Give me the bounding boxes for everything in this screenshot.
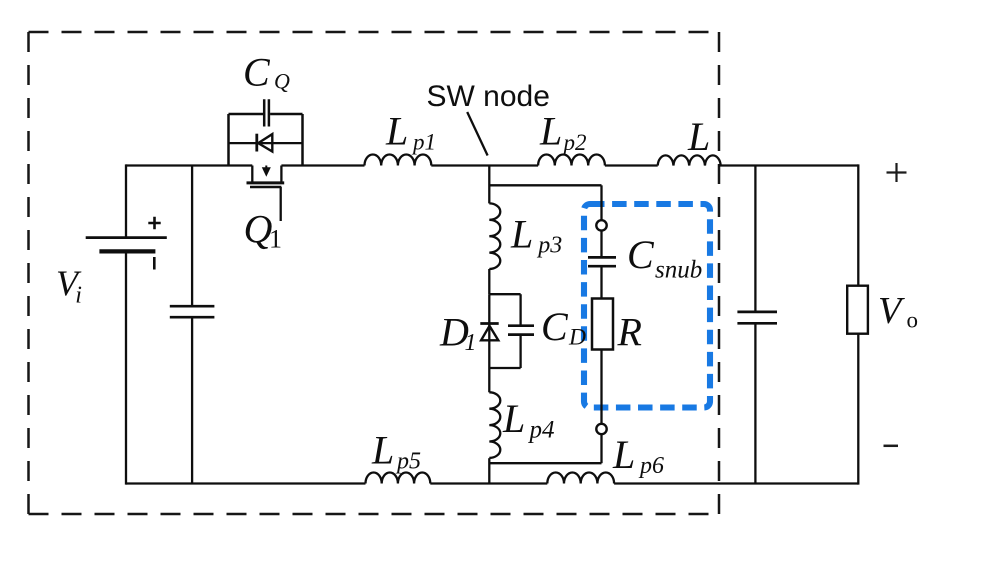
wire snubber branch top lead [600, 185, 602, 220]
wire D1 through branch [488, 294, 490, 368]
diode D1 triangle [481, 326, 498, 340]
wire output-cap branch top [754, 166, 756, 312]
label Vi [56, 263, 82, 309]
output plus sign [887, 163, 907, 182]
svg-text:L: L [612, 432, 635, 477]
svg-text:SW node: SW node [427, 80, 550, 113]
svg-text:L: L [510, 211, 533, 256]
wire CD lower lead [519, 335, 521, 368]
capacitor CD plates [508, 326, 534, 335]
battery minus tick [153, 257, 156, 270]
inductor Lp3 [489, 203, 500, 269]
wire bottom rail middle [430, 482, 547, 484]
resistor R [592, 299, 613, 350]
label SW node [427, 80, 550, 113]
transistor Q1 channel bar [247, 181, 285, 184]
node terminal circle bottom [596, 424, 606, 434]
wire output-cap branch bottom [754, 323, 756, 483]
svg-text:p2: p2 [562, 130, 587, 155]
wire Csnub to R [600, 266, 602, 298]
capacitor Cout top plate [737, 311, 777, 314]
svg-text:p6: p6 [638, 453, 664, 479]
load resistor Vo box [847, 286, 868, 334]
svg-text:V: V [878, 290, 905, 332]
wire Lp2 to L [605, 164, 658, 166]
wire top rail left segment [126, 164, 252, 166]
battery Vi minus plate [99, 249, 155, 253]
label Lp4 [502, 396, 555, 444]
wire input-cap branch bottom [191, 317, 193, 483]
capacitor Cin bottom plate [170, 316, 215, 319]
wire circle to Csnub [600, 231, 602, 258]
wire snubber bottom connector [489, 462, 601, 464]
capacitor Csnub plates [588, 257, 616, 266]
svg-text:p5: p5 [395, 449, 421, 475]
svg-text:L: L [371, 427, 394, 472]
wire bottom rail left [126, 482, 366, 484]
svg-text:Q: Q [274, 69, 290, 94]
transistor Q1 source stub [280, 166, 282, 183]
svg-text:1: 1 [465, 330, 477, 356]
wire snubber top connector [489, 184, 601, 186]
wire Lp4 to bottom rail [488, 458, 490, 483]
inductor Lp5 [366, 472, 431, 483]
capacitor CQ box left side [227, 114, 230, 166]
inductor Lp4 [489, 392, 500, 458]
capacitor CQ plates [264, 99, 269, 126]
converter boundary dashed box [29, 32, 720, 514]
svg-text:L: L [539, 109, 562, 154]
transistor Q1 drain stub [251, 166, 253, 183]
SW node pointer line [467, 112, 487, 156]
battery Vi plus plate [86, 236, 167, 239]
wire input-cap branch top [191, 166, 193, 307]
wire SW branch top [488, 166, 490, 204]
label Csnub [627, 232, 702, 284]
diode D1 cathode bar [480, 322, 498, 325]
wire L to output corner [719, 164, 859, 166]
svg-text:p3: p3 [536, 233, 562, 259]
label L [687, 114, 710, 159]
wire R to bottom circle [600, 350, 602, 424]
svg-text:snub: snub [655, 257, 702, 284]
capacitor Cout bottom plate [737, 322, 777, 325]
label D1 [439, 309, 477, 356]
D1/CD box top wire [489, 293, 520, 295]
label CD [541, 304, 586, 351]
svg-text:p1: p1 [411, 130, 436, 155]
wire bottom circle lead [600, 434, 602, 463]
svg-text:C: C [627, 232, 655, 277]
inductor Lp1 [365, 154, 432, 165]
label Lp2 [539, 109, 587, 155]
inductor L [658, 155, 721, 165]
label Vo [878, 290, 918, 333]
body diode cathode bar [255, 134, 258, 152]
wire load branch bottom [857, 334, 859, 485]
wire CD upper lead [519, 294, 521, 326]
wire battery bottom lead [125, 253, 127, 485]
label Lp5 [371, 427, 421, 474]
body diode triangle [258, 134, 272, 151]
wire battery top lead [125, 164, 127, 237]
svg-text:C: C [541, 304, 569, 349]
label CQ [243, 49, 290, 94]
node terminal circle top [596, 220, 606, 230]
inductor Lp6 [547, 472, 614, 483]
capacitor Cin top plate [170, 305, 215, 308]
transistor Q1 gate lead [280, 187, 282, 221]
transistor Q1 gate bar [250, 186, 281, 189]
svg-text:i: i [75, 283, 82, 309]
battery plus sign [148, 217, 160, 229]
label R [617, 309, 642, 354]
label Q1 [244, 207, 283, 254]
snubber highlight box (blue dashed) [584, 204, 710, 408]
label Lp1 [385, 109, 436, 155]
svg-text:o: o [907, 308, 919, 333]
wire load branch top [857, 164, 859, 285]
output minus sign [884, 445, 899, 448]
wire Lp3 to D1 box [488, 269, 490, 294]
wire Lp1 to Lp2 (through SW node) [431, 164, 538, 166]
transistor Q1 arrow [262, 166, 271, 177]
svg-text:1: 1 [269, 224, 282, 253]
inductor Lp2 [538, 154, 605, 165]
capacitor CQ top wires [229, 113, 303, 116]
svg-text:L: L [687, 114, 710, 159]
capacitor CQ box right side [301, 114, 304, 166]
label Lp3 [510, 211, 562, 258]
wire bottom rail right [614, 482, 858, 484]
svg-text:L: L [502, 396, 525, 441]
svg-text:D: D [568, 325, 586, 351]
svg-text:R: R [617, 309, 642, 354]
svg-text:L: L [385, 109, 408, 154]
wire top rail Q1-to-Lp1 segment [281, 164, 364, 166]
svg-text:p4: p4 [528, 417, 555, 444]
D1/CD box bottom wire [489, 367, 520, 369]
body diode wire row [229, 142, 303, 144]
label Lp6 [612, 432, 664, 479]
svg-text:C: C [243, 49, 271, 94]
wire box to Lp4 [488, 368, 490, 392]
